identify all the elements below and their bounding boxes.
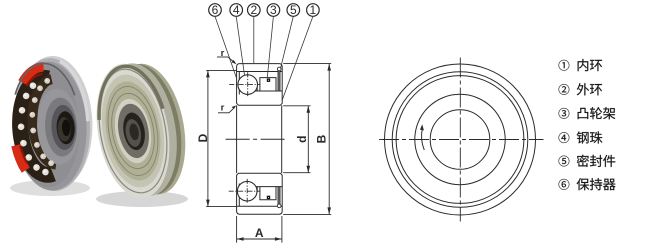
rotation arrow [422, 128, 425, 151]
front view [385, 64, 536, 215]
inner ring raceway lines [252, 90, 282, 92]
cam roller upper (black) [267, 79, 270, 82]
leader 5 [281, 16, 294, 68]
legend item 内环 [559, 60, 570, 71]
inner ring face lines through bore gap [237, 105, 282, 173]
front view circle outer ring inner edge [392, 72, 528, 208]
callout 6 [209, 4, 222, 17]
svg-text:6: 6 [212, 3, 219, 17]
cam cage lower box [260, 187, 276, 200]
leader 2 [253, 16, 255, 63]
photo: bearing pair [9, 54, 195, 207]
cross-section side view [237, 64, 283, 215]
svg-text:B: B [314, 134, 328, 143]
outer ring upper section outline [237, 64, 283, 106]
steel ball lower section [237, 181, 257, 201]
right bearing photo [87, 55, 195, 204]
leader lines [215, 16, 313, 100]
cage plate lines [238, 72, 240, 95]
legend item 密封件 [559, 156, 570, 167]
dimension d [283, 106, 310, 173]
leader 6 [215, 16, 236, 77]
callout 4 [230, 4, 243, 17]
callout 1 [307, 4, 320, 17]
callout 5 [287, 4, 300, 17]
bearing axis centerline [226, 138, 292, 140]
steel balls of left bearing [42, 169, 49, 176]
callout 2 [248, 4, 261, 17]
dimension D [206, 70, 236, 206]
leader 1 [282, 16, 313, 100]
dimension B [283, 64, 331, 215]
cam cage upper box [260, 78, 276, 91]
svg-text:1: 1 [310, 3, 317, 17]
legend item 保持器 [559, 179, 570, 190]
steel ball upper section [238, 75, 258, 95]
legend item 钢珠 [559, 132, 570, 143]
leader 4 [236, 16, 244, 75]
leader 3 [267, 16, 273, 77]
svg-text:4: 4 [233, 3, 240, 17]
front view circle outer ring outer edge [385, 64, 536, 215]
shadow under left bearing [10, 180, 90, 196]
front view circle seal seat circle [396, 76, 524, 204]
seal lower [278, 187, 280, 205]
outer ring lower section outline [237, 173, 283, 214]
legend item 外环 [559, 84, 570, 95]
cam roller lower (black) [267, 196, 270, 199]
front view circle inner ring outer circle [415, 94, 505, 184]
dimension A [237, 216, 282, 243]
svg-text:2: 2 [250, 3, 257, 17]
svg-text:r: r [221, 103, 225, 114]
front view centerlines [379, 58, 544, 222]
svg-text:d: d [295, 136, 309, 143]
red seal segments [22, 67, 45, 83]
svg-text:3: 3 [270, 3, 277, 17]
front view circle bore circle [430, 110, 490, 170]
shadow under right bearing [96, 191, 188, 207]
callout 3 [267, 4, 280, 17]
svg-text:D: D [196, 133, 210, 142]
legend item 凸轮架 [559, 108, 570, 119]
outer ring inner surface lines [237, 71, 282, 73]
left bearing photo [9, 54, 95, 193]
svg-text:5: 5 [290, 3, 297, 17]
seal upper [278, 71, 280, 91]
svg-text:A: A [255, 226, 264, 240]
